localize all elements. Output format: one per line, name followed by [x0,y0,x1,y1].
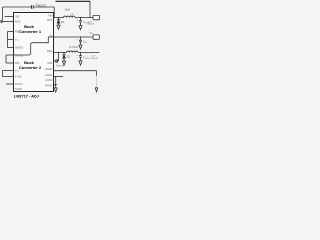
wire: L2 to VOUT2 [78,52,99,54]
left rail VC2-SYNC [2,71,4,77]
capacitor CBOOST2 [56,59,57,63]
background [0,0,100,100]
wire: SHDN1 stub [8,47,14,49]
wire: VIN line [54,36,94,38]
svg-text:FB1: FB1 [15,30,20,33]
svg-text:FSLCT: FSLCT [15,83,23,86]
wire: vertical from top line down to VOUT1 node [89,1,91,17]
ground below COUT2 [79,61,83,65]
svg-text:SW2: SW2 [47,50,53,53]
wire: SW2 output line [54,52,67,54]
wire: SW1 output line [54,17,64,19]
ground below CIN [79,45,83,49]
left pin rail FB1-VC1-SHDN1 [7,32,9,48]
svg-text:LM2717 - ADJ: LM2717 - ADJ [14,95,39,99]
pin labels left [15,15,24,91]
svg-text:SHDN2: SHDN2 [15,54,24,57]
wire: VC2 stub [3,70,14,72]
wire: CBOOST2 path from SW2 node [57,53,60,62]
left pin rail SHDN2-FB2 [5,55,7,63]
wire: CBOOST2 to CB2 pin [54,60,56,62]
wire: top feedback/boost line [56,0,91,2]
junction nodes [55,17,91,77]
svg-text:AVIN: AVIN [15,20,21,23]
svg-text:D2: D2 [67,55,71,59]
wire: FSLCT stub [6,83,14,85]
ground below D2 [62,61,66,65]
svg-text:600mA: 600mA [91,57,98,60]
capacitor CBOOST1 [32,5,34,9]
svg-text:SW1: SW1 [47,19,53,22]
wire: CB1 pin stub [5,16,14,18]
ground below R2 [95,88,98,92]
svg-text:PGND: PGND [45,84,52,87]
svg-text:AGND: AGND [45,79,52,82]
wire: CBOOST1 wire right segment [34,6,55,8]
wire: SHDN2 stub [6,54,14,56]
wire: AGND pin stub [54,76,64,78]
svg-text:D1: D1 [61,20,65,24]
svg-text:AGND: AGND [45,74,52,77]
svg-text:SGND: SGND [15,88,22,91]
capacitor CAVIN at left edge [1,20,3,23]
svg-text:VIN: VIN [48,15,52,18]
IC box U1 LM2717-ADJ [14,13,54,92]
node AGND stub [55,76,56,77]
wire: CBOOST1 to SW1 node, right vertical [53,7,55,18]
svg-text:CBOOST: CBOOST [36,3,47,8]
svg-text:COUT2: COUT2 [83,57,90,60]
capacitor COUT2 [79,53,82,61]
svg-text:SGND: SGND [45,68,52,71]
wire: internal VIN routing to converter 2 / AVIN [14,37,54,55]
node SW2/CBOOST2 [58,52,59,53]
capacitor CIN [79,37,82,45]
capacitor COUT1 [79,18,82,26]
svg-text:L2 15µH: L2 15µH [69,47,78,49]
wire: VC1 stub [8,39,14,41]
wire: FB1 stub [8,31,14,33]
capacitor/junction at PGND [54,84,57,88]
svg-text:CB2: CB2 [47,62,52,65]
svg-text:SYNC: SYNC [15,75,22,78]
wire: SYNC stub [3,76,14,78]
wire: FB2 line corner down [96,71,98,76]
node SW2/D2 [63,52,64,53]
svg-text:10µH: 10µH [65,9,71,11]
svg-text:Converter 2: Converter 2 [19,65,42,70]
wire: CBOOST1 to CB1 pin, left vertical [2,7,4,20]
wire: CBOOST1 wire left segment [3,6,32,8]
svg-text:SHDN1: SHDN1 [15,46,24,49]
node SW1/D1 [58,17,59,18]
node VOUT1/top line [89,17,90,18]
wire: FB2 long line [54,70,97,72]
pin labels right [45,15,53,88]
resistor R2 (faint body) [96,76,98,88]
svg-text:CB1: CB1 [15,15,20,18]
wire: AVIN pin wire [3,21,14,23]
wire: AGND drop [55,77,57,85]
node VOUT1/COUT1 [80,17,81,18]
inductor L2 [67,51,79,52]
diode D1 [57,18,60,26]
wire: L1 to VOUT1 node [75,17,93,19]
ground below D1 [57,25,61,29]
node VOUT2/COUT2 [80,52,81,53]
wire: FB2 stub [6,62,14,64]
ground below COUT1 [79,26,83,30]
svg-text:300mA: 300mA [88,23,95,26]
terminal box VIN [93,35,99,39]
terminal box VOUT1 [93,15,100,19]
node VIN/CIN [80,36,81,37]
inductor L1 [64,16,76,17]
ground bottom left of output [54,88,58,92]
svg-text:Converter 1: Converter 1 [19,29,42,34]
wire: PGND pin stub [54,84,56,86]
diode D2 [62,53,65,62]
svg-text:FB2: FB2 [15,62,20,65]
